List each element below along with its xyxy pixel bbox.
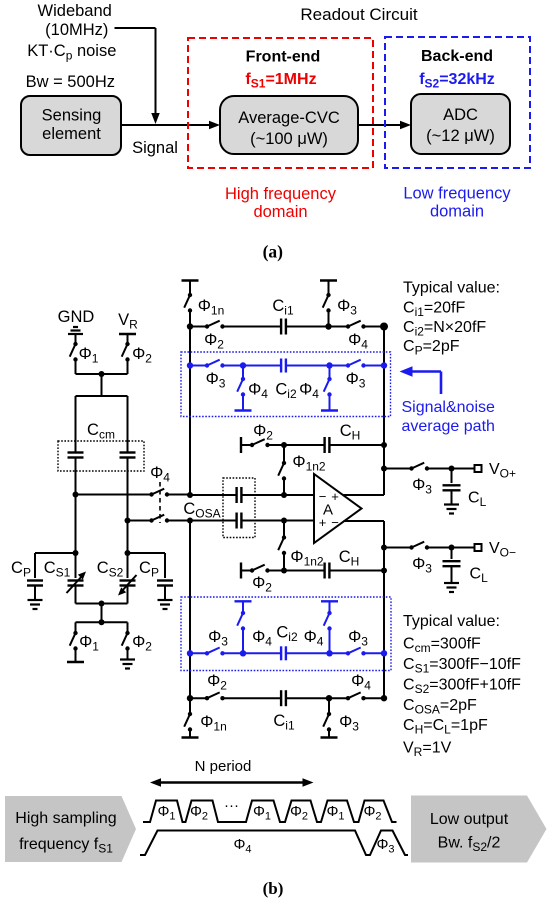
svg-text:fS2=32kHz: fS2=32kHz [419,71,495,91]
svg-text:N period: N period [195,758,252,775]
svg-text:Φ4: Φ4 [299,381,319,402]
svg-text:Ci2=N×20fF: Ci2=N×20fF [403,319,486,339]
svg-text:CH: CH [340,422,361,443]
svg-text:Wideband: Wideband [38,2,112,20]
svg-text:(a): (a) [263,242,284,262]
svg-text:Signal&noise: Signal&noise [402,399,496,416]
svg-text:Φ3: Φ3 [339,713,359,734]
svg-text:Typical value:: Typical value: [403,280,500,297]
svg-text:VO−: VO− [489,540,516,560]
svg-text:Φ3: Φ3 [412,476,432,497]
svg-text:Φ3: Φ3 [208,628,228,649]
svg-text:Φ2: Φ2 [253,422,273,443]
svg-text:Φ3: Φ3 [412,555,432,576]
svg-text:Ci2: Ci2 [275,381,297,402]
svg-text:Φ2: Φ2 [290,803,308,823]
svg-text:Φ1: Φ1 [79,633,99,654]
svg-text:COSA: COSA [183,500,220,521]
svg-text:Φ3: Φ3 [206,370,226,391]
svg-text:Φ1: Φ1 [253,803,271,823]
svg-text:Φ4: Φ4 [150,464,170,485]
svg-text:CP=2pF: CP=2pF [403,338,460,358]
svg-text:domain: domain [253,203,307,221]
svg-text:Φ4: Φ4 [248,381,268,402]
svg-text:element: element [42,125,101,143]
svg-text:+: + [319,515,327,530]
svg-text:Φ1n2: Φ1n2 [292,453,326,474]
svg-text:Φ2: Φ2 [363,803,381,823]
svg-text:Ci1: Ci1 [273,712,295,733]
svg-text:CH=CL=1pF: CH=CL=1pF [403,717,488,737]
svg-text:CL: CL [468,490,487,510]
svg-text:(b): (b) [263,879,284,898]
svg-text:Average-CVC: Average-CVC [238,109,340,127]
svg-text:Φ4: Φ4 [233,836,251,856]
svg-text:GND: GND [58,308,95,326]
svg-text:Low output: Low output [430,811,509,828]
svg-text:Φ1: Φ1 [326,803,344,823]
svg-text:Φ1n2: Φ1n2 [290,548,324,569]
svg-text:High sampling: High sampling [15,810,116,827]
svg-text:(10MHz): (10MHz) [45,21,108,39]
svg-text:VR: VR [118,311,138,332]
svg-text:Φ3: Φ3 [346,370,366,391]
svg-text:Φ4: Φ4 [348,331,368,352]
svg-text:CP: CP [11,559,31,580]
svg-text:Φ3: Φ3 [337,297,357,318]
svg-text:CS1=300fF−10fF: CS1=300fF−10fF [403,656,521,676]
svg-text:Φ1n: Φ1n [200,713,227,734]
svg-text:CH: CH [339,548,360,569]
svg-text:Sensing: Sensing [42,107,102,125]
svg-text:Φ1n: Φ1n [198,297,225,318]
svg-text:CL: CL [470,566,489,586]
svg-text:COSA=2pF: COSA=2pF [403,697,477,717]
svg-text:Low frequency: Low frequency [403,185,511,203]
svg-text:Ci1=20fF: Ci1=20fF [403,300,465,320]
svg-text:Typical value:: Typical value: [403,613,500,630]
svg-text:Ci2: Ci2 [276,624,298,645]
svg-text:Front-end: Front-end [246,49,321,66]
svg-text:ADC: ADC [443,106,478,124]
svg-text:CS1: CS1 [44,559,71,580]
svg-text:Φ3: Φ3 [348,628,368,649]
svg-text:Φ2: Φ2 [132,633,152,654]
svg-text:High frequency: High frequency [225,185,337,203]
svg-text:domain: domain [430,203,484,221]
svg-text:Φ2: Φ2 [132,345,152,366]
svg-text:Back-end: Back-end [421,48,493,65]
svg-text:Φ4: Φ4 [304,628,324,649]
svg-text:Bw = 500Hz: Bw = 500Hz [26,73,115,91]
svg-text:Φ2: Φ2 [252,574,272,595]
svg-text:fS1=1MHz: fS1=1MHz [245,71,316,91]
svg-text:Signal: Signal [132,139,178,157]
svg-text:Bw. fS2/2: Bw. fS2/2 [438,835,501,855]
svg-text:Φ2: Φ2 [190,803,208,823]
svg-text:Φ4: Φ4 [252,628,272,649]
svg-text:Φ4: Φ4 [351,672,371,693]
svg-text:Ccm: Ccm [87,421,115,442]
svg-text:CP: CP [139,559,159,580]
svg-text:−: − [331,515,339,530]
svg-text:VO+: VO+ [489,461,516,481]
svg-text:···: ··· [224,797,239,814]
svg-text:VR=1V: VR=1V [403,740,452,760]
svg-text:Φ1: Φ1 [157,803,175,823]
svg-text:Ci1: Ci1 [272,297,294,318]
svg-text:(~100 μW): (~100 μW) [250,130,328,148]
svg-text:average path: average path [402,418,495,435]
svg-text:Ccm=300fF: Ccm=300fF [403,636,481,656]
svg-text:(~12 μW): (~12 μW) [426,127,495,145]
svg-text:CS2: CS2 [97,559,124,580]
svg-text:Φ3: Φ3 [376,836,394,856]
svg-text:Φ2: Φ2 [204,331,224,352]
svg-text:Readout Circuit: Readout Circuit [300,5,417,24]
svg-text:Φ1: Φ1 [79,345,99,366]
svg-text:CS2=300fF+10fF: CS2=300fF+10fF [403,677,521,697]
svg-text:KT·Cp noise: KT·Cp noise [27,42,116,63]
svg-text:Φ2: Φ2 [207,672,227,693]
